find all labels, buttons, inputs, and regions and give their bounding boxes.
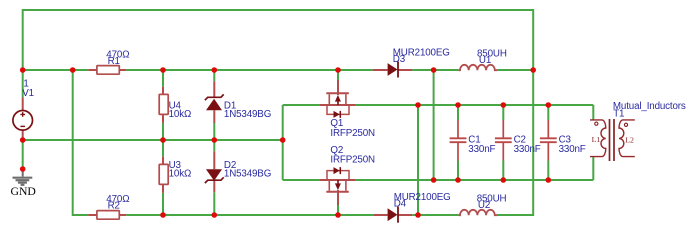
zener diode D1 xyxy=(205,81,224,123)
wire gate splitter column x=282.7 from Q1 source row to Q2 source row xyxy=(282,105,284,180)
junction row A at R2 feed xyxy=(70,67,76,73)
junction row E at Q2 gate xyxy=(335,212,341,218)
wire D2 column green segments xyxy=(213,140,215,215)
wire V1 top lead upper segment xyxy=(22,70,24,97)
inductor U1 xyxy=(459,65,498,70)
wire row D Q2 drain to caps bottom and transformer primary bottom xyxy=(356,156,594,180)
junction row B at C1 xyxy=(455,102,461,108)
wire Q1 source stub row B xyxy=(283,104,320,106)
voltage source V1 xyxy=(13,97,33,140)
junction row D at C3 xyxy=(546,177,552,183)
svg-text:330nF: 330nF xyxy=(559,144,586,155)
svg-text:U1: U1 xyxy=(479,55,491,66)
junction row A at V+ corner xyxy=(530,67,536,73)
wire row A U1 to V+ corner xyxy=(497,69,533,71)
wire Q2 gate green segment xyxy=(337,205,339,215)
svg-text:GND: GND xyxy=(11,185,36,198)
inductor U2 xyxy=(459,210,498,215)
transformer T1 primary phase dot xyxy=(595,122,598,125)
capacitor C2 xyxy=(495,120,512,161)
svg-text:D3: D3 xyxy=(393,54,406,65)
junction row E at D2 xyxy=(212,212,218,218)
junction row C at V1 minus xyxy=(20,137,26,143)
junction row B at C3 xyxy=(546,102,552,108)
wire U3 column green segments xyxy=(162,140,164,215)
junction row A at U4 xyxy=(160,67,166,73)
wire cross link D4 cathode up to row B x=418 xyxy=(417,105,419,215)
svg-text:1N5349BG: 1N5349BG xyxy=(224,109,271,120)
junction row D at C1 xyxy=(455,177,461,183)
wire Q1 gate green segment xyxy=(337,70,339,80)
resistor R2 xyxy=(88,211,126,220)
transformer T1 core lines xyxy=(610,119,615,161)
svg-text:L2: L2 xyxy=(625,135,634,144)
junction row A at V1 top xyxy=(20,67,26,73)
resistor U4 xyxy=(159,87,168,123)
zener diode D2 xyxy=(205,151,224,192)
diode D3 xyxy=(373,62,413,78)
junction row C at D1/D2 xyxy=(212,137,218,143)
wire U4 column green segments xyxy=(162,70,164,140)
svg-text:R2: R2 xyxy=(108,201,120,212)
junction row D at cross link x=433.6 xyxy=(431,177,437,183)
resistor R1 xyxy=(88,66,126,75)
junction row D at C2 xyxy=(501,177,507,183)
wire row B Q1 drain to caps top and transformer primary top xyxy=(356,105,594,120)
transformer T1 secondary phase dot xyxy=(624,123,627,126)
svg-text:10kΩ: 10kΩ xyxy=(169,109,192,120)
wire bottom rail R2 to D4 xyxy=(126,214,373,216)
svg-text:L1: L1 xyxy=(592,135,601,144)
wire Q2 source stub row D xyxy=(283,179,320,181)
junction row C at U3/U4 xyxy=(160,137,166,143)
svg-text:330nF: 330nF xyxy=(514,144,541,155)
wire row C ground net from V1 minus to gate splitter xyxy=(23,139,283,141)
wire row A D3 cathode to U1 xyxy=(412,69,458,71)
wire cross link D3 cathode down to row D x=433.6 xyxy=(433,70,435,180)
wire V+ column x=533 from row A down to bottom rail corner xyxy=(497,70,533,215)
power MOSFET Q2 xyxy=(320,167,356,205)
svg-text:V1: V1 xyxy=(22,88,34,99)
svg-text:330nF: 330nF xyxy=(468,144,495,155)
wire top rail V+ from V1 plus up across to x=533 down to row A xyxy=(23,10,534,70)
wire V1 minus to GND stem xyxy=(22,140,24,169)
svg-text:D4: D4 xyxy=(394,199,407,210)
capacitor C1 xyxy=(450,120,467,161)
svg-text:1N5349BG: 1N5349BG xyxy=(224,169,271,180)
wire C1 column green segments xyxy=(457,105,459,180)
junction row C at gate splitter xyxy=(280,137,286,143)
junction row E at U3 xyxy=(160,212,166,218)
svg-text:R1: R1 xyxy=(108,56,120,67)
capacitor C3 xyxy=(540,120,557,161)
transformer T1 primary winding L1 xyxy=(590,120,606,157)
power MOSFET Q1 xyxy=(320,80,356,118)
wire bottom rail D4 cathode to U2 xyxy=(412,214,458,216)
svg-text:IRFP250N: IRFP250N xyxy=(330,128,375,139)
resistor U3 xyxy=(159,157,168,193)
wire C2 column green segments xyxy=(502,105,504,180)
junction row A at Q1 gate xyxy=(335,67,341,73)
wire D1 column green segments xyxy=(213,70,215,140)
wire C3 column green segments xyxy=(547,105,549,180)
diode D4 xyxy=(374,207,413,223)
junction row B at cross link x=418 xyxy=(415,102,421,108)
junction row A at D3 cathode U1 xyxy=(431,67,437,73)
wire row A gate1 node R1 to D3 xyxy=(126,69,373,71)
junction row B at C2 xyxy=(501,102,507,108)
svg-text:U2: U2 xyxy=(478,200,490,211)
wire V+ drop to R2 feed column x=72.7 down to bottom rail xyxy=(73,70,89,215)
svg-text:T1: T1 xyxy=(613,109,624,120)
junction row E at D4 cathode xyxy=(415,212,421,218)
ground xyxy=(13,169,33,185)
junction row A at D1 xyxy=(212,67,218,73)
transformer T1 secondary winding L2 xyxy=(619,120,635,157)
junction at GND stem xyxy=(20,166,26,172)
svg-text:10kΩ: 10kΩ xyxy=(169,169,192,180)
wire row A left segment V+ to R1 xyxy=(23,69,89,71)
svg-text:IRFP250N: IRFP250N xyxy=(330,154,375,165)
